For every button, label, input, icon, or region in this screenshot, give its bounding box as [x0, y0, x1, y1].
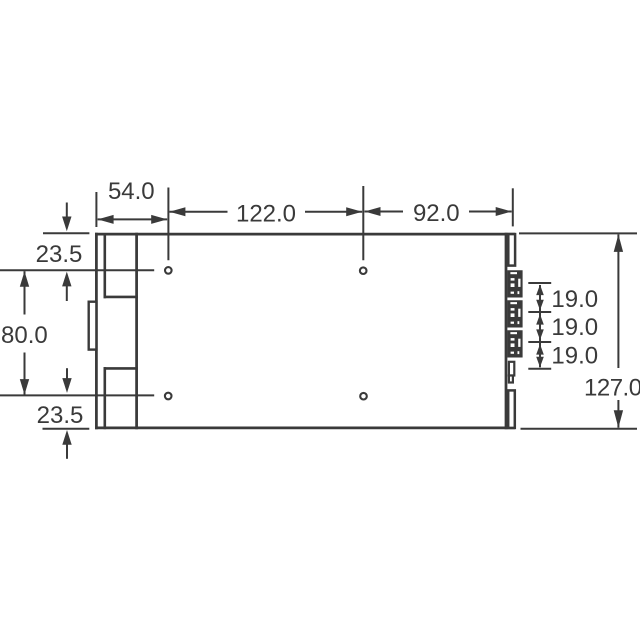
- dimension 23.5 top arrows: [62, 203, 71, 302]
- dimension 19.0 arrows pair 3: [536, 341, 544, 367]
- terminal block 1: [507, 270, 522, 297]
- body outline bottom edge: [95, 427, 515, 430]
- right small connector tab: [509, 362, 514, 383]
- extension line between 122.0 and 92.0: [362, 186, 364, 260]
- tick 4 (19.0): [528, 368, 551, 370]
- bottom-left horizontal extension: [43, 428, 90, 430]
- bottom-right horizontal extension: [521, 428, 638, 430]
- dimension 54.0 line: [98, 215, 168, 224]
- mounting hole top-left: [165, 267, 172, 274]
- svg-text:54.0: 54.0: [108, 178, 155, 205]
- dimension 23.5 bottom arrows: [62, 368, 71, 459]
- body outline right edge: [505, 233, 508, 429]
- extension line right of 92.0: [512, 188, 514, 226]
- terminal block 2: [507, 300, 522, 327]
- top-right horizontal extension: [519, 232, 637, 234]
- svg-text:127.0: 127.0: [584, 375, 640, 402]
- top-left horizontal extension: [43, 232, 89, 234]
- dimension 122.0 line: [169, 207, 362, 216]
- dimension 92.0 line: [365, 207, 512, 216]
- mounting hole bottom-left: [165, 393, 172, 400]
- bottom-left bracket block: [104, 367, 138, 429]
- extension line left of 54.0: [95, 192, 97, 227]
- svg-text:80.0: 80.0: [1, 322, 48, 349]
- mounting hole bottom-right: [360, 393, 367, 400]
- extension line between 54.0 and 122.0: [167, 188, 169, 261]
- svg-text:122.0: 122.0: [236, 200, 296, 227]
- dimension 19.0 arrows pair 1: [536, 285, 544, 311]
- inner vertical panel line: [135, 233, 138, 429]
- terminal block 3: [507, 330, 522, 357]
- svg-text:19.0: 19.0: [551, 343, 598, 370]
- tick 1 (19.0): [528, 282, 551, 284]
- left side tab: [89, 302, 97, 350]
- right top terminal plate: [508, 234, 515, 266]
- top-left bracket block: [104, 234, 138, 298]
- hole centerline bottom: [0, 394, 154, 396]
- svg-text:19.0: 19.0: [551, 314, 598, 341]
- svg-text:23.5: 23.5: [36, 241, 83, 268]
- right bottom terminal plate: [508, 390, 515, 428]
- body outline top edge: [95, 233, 515, 236]
- svg-text:23.5: 23.5: [37, 402, 84, 429]
- svg-text:19.0: 19.0: [551, 286, 598, 313]
- mounting hole top-right: [360, 267, 367, 274]
- hole centerline top: [0, 269, 154, 271]
- tick 3 (19.0): [528, 341, 551, 343]
- body outline left edge: [95, 233, 98, 429]
- dimension 127.0 line: [614, 234, 623, 427]
- tick 2 (19.0): [528, 311, 551, 313]
- svg-text:92.0: 92.0: [413, 200, 460, 227]
- dimension 19.0 arrows pair 2: [536, 311, 544, 341]
- dimension 80.0 line: [20, 271, 29, 394]
